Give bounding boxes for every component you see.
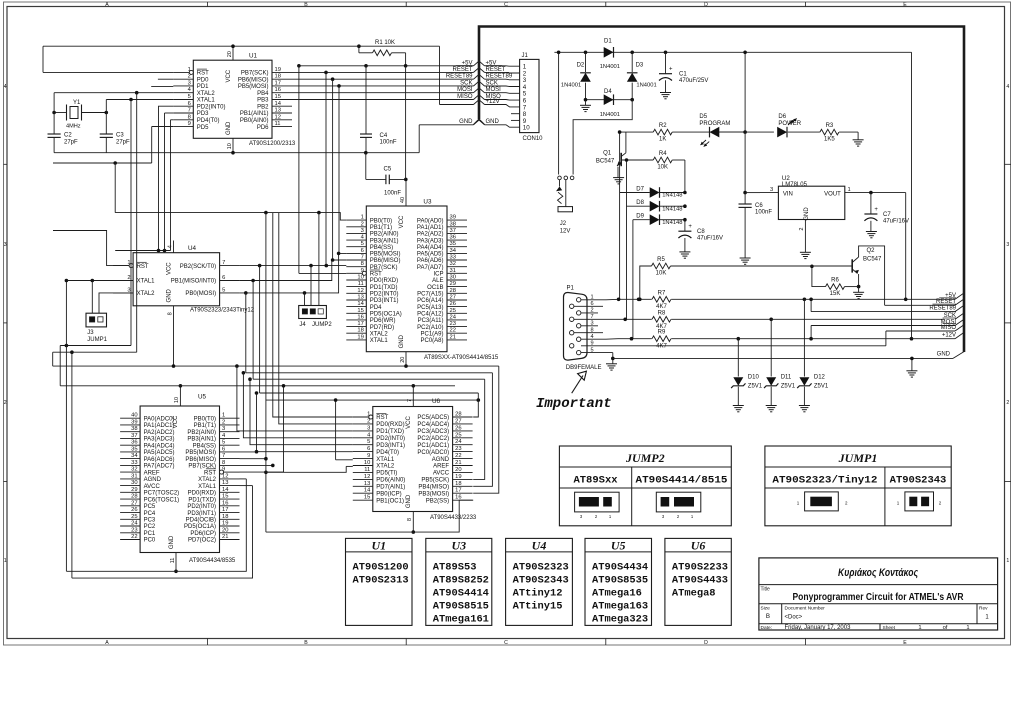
svg-text:PD2(INT0): PD2(INT0) — [376, 436, 405, 442]
svg-text:C4: C4 — [380, 133, 388, 139]
svg-text:ATmega8: ATmega8 — [672, 588, 716, 600]
svg-text:PA5(AD5): PA5(AD5) — [417, 252, 444, 258]
svg-text:PC5(A13): PC5(A13) — [417, 305, 443, 311]
svg-text:20: 20 — [400, 357, 406, 363]
svg-text:J2: J2 — [560, 221, 567, 227]
svg-text:PC7(A15): PC7(A15) — [417, 292, 443, 298]
svg-text:6: 6 — [188, 101, 191, 107]
svg-text:AT90S4434/8535: AT90S4434/8535 — [189, 558, 236, 564]
svg-text:21: 21 — [455, 460, 461, 466]
svg-text:3: 3 — [222, 426, 225, 432]
svg-text:23: 23 — [455, 446, 461, 452]
svg-text:+: + — [874, 207, 878, 213]
svg-text:10: 10 — [523, 125, 530, 132]
svg-text:PD0(RXD): PD0(RXD) — [370, 278, 398, 284]
svg-text:AT90S2343: AT90S2343 — [513, 575, 569, 587]
svg-text:2: 2 — [188, 74, 191, 80]
svg-text:PD6: PD6 — [257, 125, 269, 131]
svg-text:PB4(SS): PB4(SS) — [193, 443, 216, 449]
svg-text:6: 6 — [361, 248, 364, 254]
svg-text:PD3(INT1): PD3(INT1) — [187, 511, 216, 517]
svg-text:PB7(SCK): PB7(SCK) — [241, 71, 269, 77]
svg-text:18: 18 — [455, 481, 461, 487]
svg-text:1: 1 — [367, 412, 370, 418]
svg-text:ATmega163: ATmega163 — [592, 601, 648, 613]
svg-text:RST: RST — [137, 264, 149, 270]
svg-text:PB2: PB2 — [257, 105, 269, 111]
svg-text:PA3(AD3): PA3(AD3) — [417, 238, 444, 244]
svg-text:PB3: PB3 — [257, 98, 269, 104]
svg-text:XTAL2: XTAL2 — [370, 331, 389, 337]
svg-text:VCC: VCC — [173, 415, 179, 428]
svg-text:29: 29 — [131, 487, 137, 493]
svg-text:D9: D9 — [636, 214, 644, 220]
svg-text:PD3(INT1): PD3(INT1) — [370, 298, 399, 304]
svg-text:5: 5 — [188, 94, 191, 100]
svg-text:PROGRAM: PROGRAM — [699, 121, 730, 127]
svg-text:11: 11 — [364, 467, 370, 473]
svg-text:PA4(ADC4): PA4(ADC4) — [144, 443, 175, 449]
svg-text:PA1(ADC1): PA1(ADC1) — [144, 423, 175, 429]
svg-text:PB1(T1): PB1(T1) — [370, 225, 392, 231]
svg-text:PD2(INT0): PD2(INT0) — [187, 504, 216, 510]
svg-text:1: 1 — [966, 625, 969, 631]
svg-text:PC7(TOSC2): PC7(TOSC2) — [144, 491, 180, 497]
svg-text:PC5: PC5 — [144, 504, 156, 510]
svg-text:47uF/16V: 47uF/16V — [883, 219, 909, 225]
svg-text:12: 12 — [357, 288, 363, 294]
svg-text:14: 14 — [275, 101, 282, 107]
svg-text:23: 23 — [131, 527, 137, 533]
svg-text:9: 9 — [222, 467, 225, 473]
svg-text:<Doc>: <Doc> — [785, 615, 803, 621]
svg-text:25: 25 — [450, 308, 456, 314]
svg-text:C7: C7 — [883, 212, 891, 218]
svg-text:RST: RST — [370, 272, 382, 278]
svg-text:R7: R7 — [658, 290, 666, 296]
svg-text:AT90S4414/8515: AT90S4414/8515 — [636, 475, 728, 487]
svg-text:AT90S2313: AT90S2313 — [353, 575, 409, 587]
svg-text:JUMP1: JUMP1 — [87, 337, 107, 343]
svg-text:PD4: PD4 — [370, 305, 382, 311]
svg-text:PC0: PC0 — [144, 538, 156, 544]
svg-text:PA5(ADC5): PA5(ADC5) — [144, 450, 175, 456]
svg-text:PC6(A14): PC6(A14) — [417, 298, 443, 304]
svg-text:Important: Important — [536, 396, 612, 412]
svg-text:5: 5 — [361, 241, 364, 247]
svg-text:Size: Size — [761, 606, 771, 612]
svg-text:28: 28 — [131, 494, 137, 500]
svg-text:PA6(AD6): PA6(AD6) — [417, 258, 444, 264]
svg-text:8: 8 — [407, 518, 413, 521]
svg-text:1: 1 — [1006, 558, 1009, 564]
svg-text:1N4001: 1N4001 — [636, 83, 656, 89]
svg-text:27pF: 27pF — [116, 140, 130, 146]
svg-text:5: 5 — [367, 439, 370, 445]
svg-text:ATtiny12: ATtiny12 — [513, 588, 563, 600]
svg-text:21: 21 — [450, 334, 456, 340]
svg-text:Title: Title — [761, 587, 770, 593]
svg-text:100nF: 100nF — [755, 210, 772, 216]
svg-text:PD7(OC2): PD7(OC2) — [188, 538, 216, 544]
svg-text:PD0: PD0 — [197, 77, 209, 83]
svg-text:AT90S4433: AT90S4433 — [672, 575, 728, 587]
svg-text:PD6(ICP): PD6(ICP) — [190, 531, 216, 537]
svg-text:17: 17 — [357, 321, 363, 327]
svg-text:1: 1 — [222, 413, 225, 419]
svg-text:18: 18 — [222, 514, 228, 520]
svg-text:8: 8 — [167, 312, 173, 315]
svg-text:4MHz: 4MHz — [66, 124, 81, 130]
svg-text:13: 13 — [275, 108, 281, 114]
svg-text:4K7: 4K7 — [656, 304, 667, 310]
svg-text:C: C — [504, 2, 508, 8]
svg-text:PC3(A11): PC3(A11) — [418, 318, 444, 324]
svg-text:PB6(MISO): PB6(MISO) — [370, 258, 401, 264]
svg-text:PD7(RD): PD7(RD) — [370, 325, 394, 331]
svg-text:34: 34 — [450, 248, 457, 254]
svg-text:3: 3 — [188, 80, 191, 86]
svg-text:20: 20 — [227, 51, 233, 57]
svg-text:PC1(A9): PC1(A9) — [420, 331, 443, 337]
svg-text:PB5(MOSI): PB5(MOSI) — [185, 450, 216, 456]
svg-text:B: B — [304, 2, 308, 8]
svg-text:ALE: ALE — [432, 278, 443, 284]
svg-text:B: B — [304, 640, 308, 646]
svg-text:Y1: Y1 — [73, 100, 81, 106]
svg-text:8: 8 — [591, 327, 594, 333]
svg-text:ATtiny15: ATtiny15 — [513, 601, 563, 613]
svg-text:R1 10K: R1 10K — [375, 40, 395, 46]
svg-text:PB3(AIN1): PB3(AIN1) — [187, 437, 216, 443]
svg-text:26: 26 — [131, 507, 137, 513]
svg-text:2: 2 — [591, 308, 594, 314]
svg-text:40: 40 — [400, 197, 406, 203]
svg-text:D2: D2 — [577, 63, 585, 69]
svg-text:J4: J4 — [299, 322, 306, 328]
svg-text:Z5V1: Z5V1 — [781, 384, 796, 390]
svg-text:U1: U1 — [249, 53, 258, 60]
svg-text:7: 7 — [591, 314, 594, 320]
svg-text:VOUT: VOUT — [824, 191, 841, 197]
svg-text:19: 19 — [455, 474, 461, 480]
svg-text:E: E — [903, 640, 907, 646]
svg-text:POWER: POWER — [778, 121, 801, 127]
svg-text:37: 37 — [131, 433, 137, 439]
svg-text:PC2: PC2 — [144, 524, 156, 530]
svg-text:PC0(ADC0): PC0(ADC0) — [417, 450, 449, 456]
svg-text:6: 6 — [367, 446, 370, 452]
svg-text:22: 22 — [450, 328, 456, 334]
svg-text:1: 1 — [188, 67, 191, 73]
svg-text:13: 13 — [357, 295, 363, 301]
svg-text:26: 26 — [455, 425, 461, 431]
svg-text:PC4(ADC4): PC4(ADC4) — [417, 422, 449, 428]
svg-text:24: 24 — [455, 439, 462, 445]
svg-text:D: D — [704, 640, 708, 646]
svg-text:of: of — [943, 625, 948, 631]
svg-text:GND: GND — [166, 288, 172, 302]
svg-text:PB0(ICP): PB0(ICP) — [376, 491, 401, 497]
svg-text:1: 1 — [361, 215, 364, 221]
svg-text:32: 32 — [131, 467, 137, 473]
svg-text:PD2(INT0): PD2(INT0) — [197, 105, 226, 111]
svg-text:D: D — [704, 2, 708, 8]
svg-text:6: 6 — [222, 275, 225, 281]
svg-text:27: 27 — [450, 295, 456, 301]
svg-text:PD0(RXD): PD0(RXD) — [188, 491, 216, 497]
svg-text:8: 8 — [188, 114, 191, 120]
svg-text:PB0(T0): PB0(T0) — [194, 416, 216, 422]
svg-text:31: 31 — [450, 268, 456, 274]
svg-text:24: 24 — [131, 521, 138, 527]
svg-text:XTAL2: XTAL2 — [137, 291, 156, 297]
svg-text:1N4148: 1N4148 — [662, 206, 682, 212]
svg-text:R5: R5 — [657, 257, 665, 263]
svg-text:D1: D1 — [604, 39, 612, 45]
svg-text:PD4(T0): PD4(T0) — [197, 118, 220, 124]
svg-text:100nF: 100nF — [384, 191, 401, 197]
svg-text:PC5(ADC5): PC5(ADC5) — [417, 415, 449, 421]
svg-text:470uF/25V: 470uF/25V — [679, 78, 708, 84]
svg-text:DB9FEMALE: DB9FEMALE — [566, 365, 602, 371]
svg-text:1N4001: 1N4001 — [600, 112, 620, 118]
svg-text:D5: D5 — [699, 114, 707, 120]
svg-text:18: 18 — [357, 328, 363, 334]
svg-text:PA0(AD0): PA0(AD0) — [417, 218, 444, 224]
svg-text:14: 14 — [364, 488, 371, 494]
svg-text:PB2(AIN0): PB2(AIN0) — [187, 430, 216, 436]
svg-text:25: 25 — [455, 432, 461, 438]
svg-text:3: 3 — [591, 321, 594, 327]
svg-text:10K: 10K — [656, 271, 667, 277]
svg-text:PB2(SS): PB2(SS) — [426, 498, 449, 504]
svg-text:PC2(A10): PC2(A10) — [417, 325, 443, 331]
svg-text:GND: GND — [399, 334, 405, 348]
svg-text:D6: D6 — [778, 114, 786, 120]
svg-text:19: 19 — [357, 334, 363, 340]
svg-text:15: 15 — [222, 494, 228, 500]
svg-text:PC0(A8): PC0(A8) — [420, 338, 443, 344]
svg-text:29: 29 — [450, 281, 456, 287]
svg-text:20: 20 — [455, 467, 461, 473]
svg-text:C2: C2 — [64, 133, 72, 139]
svg-text:2: 2 — [4, 400, 7, 406]
svg-text:RST: RST — [376, 415, 388, 421]
svg-text:2: 2 — [222, 419, 225, 425]
svg-text:PA7(AD7): PA7(AD7) — [417, 265, 444, 271]
svg-text:10: 10 — [174, 397, 180, 403]
svg-text:16: 16 — [222, 500, 228, 506]
svg-text:38: 38 — [450, 221, 456, 227]
svg-text:AT90S1200: AT90S1200 — [353, 562, 409, 574]
svg-text:1N4001: 1N4001 — [600, 64, 620, 70]
svg-text:11: 11 — [358, 281, 364, 287]
svg-text:23: 23 — [450, 321, 456, 327]
svg-text:PB5(MOSI): PB5(MOSI) — [370, 252, 401, 258]
svg-text:30: 30 — [131, 480, 137, 486]
svg-text:U6: U6 — [691, 539, 706, 553]
svg-text:A: A — [105, 640, 109, 646]
svg-text:5: 5 — [222, 440, 225, 446]
svg-text:AGND: AGND — [432, 457, 450, 463]
svg-text:C8: C8 — [697, 229, 705, 235]
svg-text:J3: J3 — [87, 330, 94, 336]
svg-text:AT89S8252: AT89S8252 — [433, 575, 489, 587]
svg-text:RST: RST — [204, 470, 216, 476]
svg-text:U5: U5 — [611, 539, 626, 553]
svg-text:PC3: PC3 — [144, 518, 156, 524]
svg-text:AT90S2323/2343Tiny12: AT90S2323/2343Tiny12 — [190, 307, 255, 313]
svg-text:PC1: PC1 — [144, 531, 156, 537]
svg-text:5: 5 — [591, 347, 594, 353]
svg-text:Q1: Q1 — [603, 151, 612, 157]
svg-text:12: 12 — [364, 474, 370, 480]
svg-text:9: 9 — [188, 121, 191, 127]
svg-text:C5: C5 — [384, 167, 392, 173]
svg-text:D12: D12 — [814, 375, 826, 381]
svg-text:27: 27 — [131, 500, 137, 506]
svg-text:PB6(MISO): PB6(MISO) — [238, 77, 269, 83]
svg-text:Document Number: Document Number — [785, 606, 826, 612]
svg-text:D3: D3 — [636, 63, 644, 69]
svg-text:AT89S53: AT89S53 — [433, 562, 477, 574]
svg-text:25: 25 — [131, 514, 137, 520]
svg-text:AT90S2323/Tiny12: AT90S2323/Tiny12 — [772, 475, 877, 487]
svg-text:RESET89: RESET89 — [929, 305, 956, 311]
svg-text:15: 15 — [364, 495, 370, 501]
svg-text:4K7: 4K7 — [656, 343, 667, 349]
svg-text:6: 6 — [222, 446, 225, 452]
svg-text:Z5V1: Z5V1 — [748, 384, 763, 390]
svg-text:PC2(ADC2): PC2(ADC2) — [417, 436, 449, 442]
svg-text:2: 2 — [1006, 400, 1009, 406]
svg-text:10: 10 — [357, 275, 363, 281]
svg-text:R2: R2 — [659, 123, 667, 129]
svg-text:E: E — [903, 2, 907, 8]
svg-text:PD0(RXD): PD0(RXD) — [376, 422, 404, 428]
svg-text:AT90S8515: AT90S8515 — [433, 601, 489, 613]
svg-text:1: 1 — [848, 187, 851, 193]
svg-text:3: 3 — [770, 187, 773, 193]
svg-text:14: 14 — [357, 301, 364, 307]
svg-text:VCC: VCC — [166, 262, 172, 275]
svg-text:17: 17 — [455, 488, 461, 494]
svg-text:PB0(T0): PB0(T0) — [370, 218, 392, 224]
svg-text:PD5(OC1A): PD5(OC1A) — [184, 524, 216, 530]
svg-text:PC3(ADC3): PC3(ADC3) — [417, 429, 449, 435]
svg-text:B: B — [766, 613, 770, 620]
svg-text:PB6(MISO): PB6(MISO) — [185, 457, 216, 463]
svg-text:16: 16 — [275, 87, 281, 93]
svg-text:36: 36 — [131, 440, 137, 446]
svg-text:PA0(ADC0): PA0(ADC0) — [144, 416, 175, 422]
svg-text:BC547: BC547 — [596, 159, 615, 165]
svg-text:4: 4 — [1006, 84, 1009, 90]
svg-text:8: 8 — [361, 261, 364, 267]
svg-text:PB4: PB4 — [257, 91, 269, 97]
svg-text:Date:: Date: — [761, 625, 772, 631]
svg-text:PB0(AIN0): PB0(AIN0) — [240, 118, 269, 124]
svg-text:PD1(TXD): PD1(TXD) — [188, 497, 216, 503]
svg-text:PB2(AIN0): PB2(AIN0) — [370, 232, 399, 238]
svg-text:U4: U4 — [532, 539, 547, 553]
svg-text:39: 39 — [450, 215, 456, 221]
svg-text:40: 40 — [131, 413, 137, 419]
svg-text:XTAL1: XTAL1 — [198, 484, 217, 490]
svg-text:15: 15 — [275, 94, 281, 100]
svg-text:JUMP1: JUMP1 — [838, 451, 878, 465]
svg-text:AT90S1200/2313: AT90S1200/2313 — [249, 141, 296, 147]
svg-text:37: 37 — [450, 228, 456, 234]
svg-text:15: 15 — [357, 308, 363, 314]
svg-text:A: A — [105, 2, 109, 8]
svg-text:BC547: BC547 — [863, 257, 882, 263]
svg-text:PA3(ADC3): PA3(ADC3) — [144, 437, 175, 443]
svg-text:3: 3 — [1006, 242, 1009, 248]
svg-text:ICP: ICP — [433, 272, 443, 278]
svg-text:38: 38 — [131, 426, 137, 432]
svg-text:3: 3 — [4, 242, 7, 248]
svg-text:J1: J1 — [522, 53, 529, 59]
svg-text:GND: GND — [804, 207, 810, 221]
svg-text:10K: 10K — [657, 165, 668, 171]
svg-text:GND: GND — [459, 119, 473, 125]
svg-text:PC4(A12): PC4(A12) — [417, 312, 443, 318]
svg-text:Q2: Q2 — [867, 248, 876, 254]
svg-text:PB3(AIN1): PB3(AIN1) — [370, 238, 399, 244]
svg-text:PA6(ADC6): PA6(ADC6) — [144, 457, 175, 463]
svg-text:C: C — [504, 640, 508, 646]
svg-text:17: 17 — [222, 507, 228, 513]
svg-text:PB1(OC1): PB1(OC1) — [376, 498, 404, 504]
svg-text:AT90S4433/2233: AT90S4433/2233 — [430, 515, 477, 521]
svg-text:Κυριάκος Κοντάκος: Κυριάκος Κοντάκος — [838, 567, 919, 579]
svg-text:XTAL1: XTAL1 — [137, 279, 156, 285]
svg-text:27: 27 — [455, 418, 461, 424]
svg-text:U5: U5 — [198, 394, 207, 401]
svg-text:27pF: 27pF — [64, 140, 78, 146]
svg-text:1K: 1K — [659, 137, 666, 143]
svg-text:JUMP2: JUMP2 — [312, 322, 332, 328]
svg-text:U2: U2 — [782, 175, 790, 182]
svg-text:11: 11 — [170, 558, 176, 564]
svg-text:R6: R6 — [831, 278, 839, 284]
svg-text:3: 3 — [367, 425, 370, 431]
svg-text:12: 12 — [275, 114, 281, 120]
svg-text:AT89Sxx: AT89Sxx — [573, 475, 618, 487]
svg-text:7: 7 — [222, 453, 225, 459]
svg-text:30: 30 — [450, 275, 456, 281]
svg-text:15K: 15K — [830, 291, 841, 297]
svg-text:5: 5 — [222, 287, 225, 293]
svg-text:24: 24 — [450, 314, 457, 320]
svg-text:20: 20 — [222, 527, 228, 533]
svg-text:PD1(TXD): PD1(TXD) — [370, 285, 398, 291]
svg-text:R4: R4 — [659, 151, 667, 157]
svg-text:32: 32 — [450, 261, 456, 267]
svg-text:PC4: PC4 — [144, 511, 156, 517]
svg-text:12V: 12V — [560, 229, 571, 235]
svg-text:22: 22 — [131, 534, 137, 540]
svg-text:33: 33 — [450, 255, 456, 261]
svg-text:R9: R9 — [658, 330, 666, 336]
svg-text:AT90S4414: AT90S4414 — [433, 588, 489, 600]
svg-text:PB0(MOSI): PB0(MOSI) — [185, 291, 216, 297]
svg-text:2: 2 — [799, 227, 805, 230]
svg-text:GND: GND — [169, 535, 175, 549]
svg-text:1N4148: 1N4148 — [662, 193, 682, 199]
